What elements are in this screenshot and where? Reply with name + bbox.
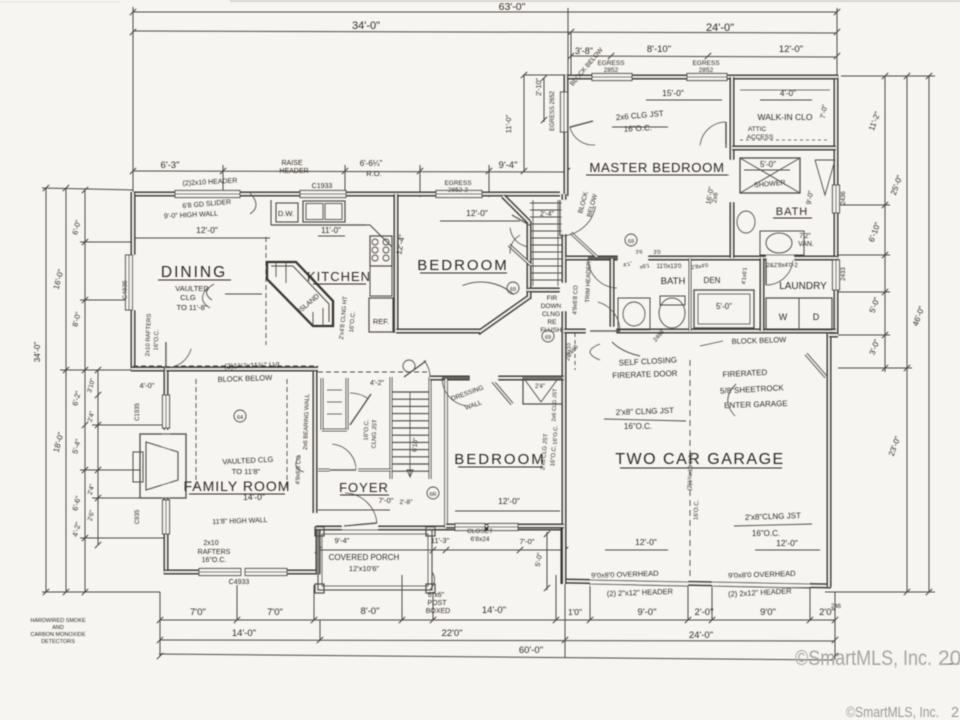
svg-text:ATTIC: ATTIC: [748, 126, 767, 133]
svg-text:MASTER BEDROOM: MASTER BEDROOM: [589, 160, 724, 175]
svg-text:7'0": 7'0": [267, 607, 283, 618]
svg-text:4'9x6'8 CO: 4'9x6'8 CO: [572, 285, 579, 315]
svg-text:©SmartMLS, Inc.: ©SmartMLS, Inc.: [846, 705, 939, 720]
svg-text:69: 69: [510, 287, 516, 293]
svg-text:6'-3": 6'-3": [161, 160, 180, 171]
svg-text:7'0": 7'0": [190, 607, 206, 618]
svg-text:11'0x13'0: 11'0x13'0: [657, 264, 683, 270]
svg-text:11'-0": 11'-0": [504, 114, 513, 133]
svg-text:2&2'8x4'0-2: 2&2'8x4'0-2: [766, 263, 798, 269]
svg-text:4'-2": 4'-2": [370, 380, 384, 387]
svg-text:REF.: REF.: [373, 317, 389, 326]
svg-text:CLNG JST: CLNG JST: [371, 419, 378, 449]
svg-text:5'-0": 5'-0": [760, 160, 776, 169]
svg-text:EGRESS: EGRESS: [444, 180, 472, 187]
svg-text:11'-3": 11'-3": [431, 536, 450, 545]
svg-text:64: 64: [237, 415, 243, 421]
svg-text:24'-0": 24'-0": [706, 22, 734, 34]
svg-text:RAISE: RAISE: [281, 160, 302, 167]
svg-text:12'-0": 12'-0": [779, 44, 803, 55]
svg-text:14'-0": 14'-0": [232, 628, 256, 639]
svg-text:12'-0": 12'-0": [466, 208, 488, 218]
svg-text:2'-10": 2'-10": [536, 78, 543, 96]
svg-text:11'-0": 11'-0": [321, 226, 341, 235]
svg-text:©SmartMLS, Inc.: ©SmartMLS, Inc.: [795, 647, 932, 670]
svg-text:VAN.: VAN.: [798, 241, 814, 248]
svg-text:2433: 2433: [841, 267, 847, 281]
svg-text:2852: 2852: [604, 67, 619, 74]
svg-text:2436: 2436: [841, 191, 847, 205]
svg-text:6"x6": 6"x6": [428, 592, 445, 599]
svg-text:63'-0": 63'-0": [499, 1, 526, 13]
svg-text:2'-0": 2'-0": [695, 607, 714, 618]
svg-text:2'4": 2'4": [535, 384, 545, 390]
svg-text:TWO CAR GARAGE: TWO CAR GARAGE: [615, 451, 784, 468]
svg-text:16"O.C.: 16"O.C.: [154, 329, 161, 351]
svg-text:7'2": 7'2": [799, 233, 811, 240]
svg-text:16"O.C.: 16"O.C.: [364, 419, 371, 441]
svg-text:12'-0": 12'-0": [498, 496, 520, 506]
svg-text:C1933: C1933: [312, 183, 333, 190]
svg-text:6'8x24: 6'8x24: [471, 536, 490, 543]
svg-text:16"O.C.: 16"O.C.: [202, 557, 227, 564]
svg-text:AND: AND: [52, 625, 64, 631]
svg-text:12'x10'6": 12'x10'6": [349, 564, 379, 573]
svg-text:D.W.: D.W.: [278, 209, 294, 218]
svg-text:16"O.C.: 16"O.C.: [624, 123, 653, 133]
svg-text:BEDROOM: BEDROOM: [417, 257, 509, 274]
svg-text:BATH: BATH: [776, 206, 809, 218]
svg-text:14'-0": 14'-0": [243, 492, 265, 502]
svg-text:C4935: C4935: [122, 280, 129, 300]
svg-text:2852: 2852: [699, 67, 714, 74]
svg-text:BOXED: BOXED: [426, 608, 451, 615]
svg-text:DOWN: DOWN: [541, 303, 562, 310]
svg-text:C1935: C1935: [135, 403, 141, 421]
svg-text:22'0": 22'0": [441, 628, 462, 639]
svg-text:DEN: DEN: [704, 276, 721, 285]
svg-text:2852-2: 2852-2: [448, 187, 469, 194]
svg-text:246: 246: [831, 604, 842, 610]
svg-text:3'0: 3'0: [653, 250, 660, 256]
svg-text:CLOSET: CLOSET: [467, 528, 493, 535]
svg-text:6'-6¼": 6'-6¼": [360, 159, 383, 168]
svg-text:4'-0": 4'-0": [780, 89, 796, 98]
svg-text:9'-0": 9'-0": [638, 607, 657, 618]
svg-text:16"O.C.: 16"O.C.: [624, 422, 652, 431]
svg-text:BATH: BATH: [661, 276, 686, 287]
svg-text:DETECTORS: DETECTORS: [41, 639, 75, 645]
svg-text:24'-0": 24'-0": [689, 630, 713, 641]
svg-text:FAMILY ROOM: FAMILY ROOM: [184, 478, 291, 494]
svg-text:34'-0": 34'-0": [352, 20, 380, 32]
svg-text:6'10": 6'10": [411, 437, 419, 453]
svg-text:16"O.C.: 16"O.C.: [752, 529, 780, 538]
svg-text:HEADER: HEADER: [279, 168, 308, 175]
svg-text:69: 69: [628, 239, 634, 245]
svg-text:12'-0": 12'-0": [776, 538, 798, 548]
svg-text:C4933: C4933: [229, 579, 250, 586]
svg-text:FIR: FIR: [547, 295, 558, 302]
svg-text:CARBON MONOXIDE: CARBON MONOXIDE: [30, 632, 85, 638]
svg-text:RAFTERS: RAFTERS: [198, 549, 231, 556]
svg-text:9'-4": 9'-4": [335, 536, 350, 545]
svg-text:20: 20: [938, 647, 960, 670]
svg-text:6R: 6R: [429, 492, 436, 498]
svg-text:TO 11'-8": TO 11'-8": [177, 303, 208, 312]
svg-text:CLNG: CLNG: [542, 311, 560, 318]
svg-text:16'O.C.: 16'O.C.: [694, 499, 701, 520]
svg-text:C935: C935: [135, 509, 141, 524]
svg-text:TO 11'8": TO 11'8": [232, 467, 261, 476]
svg-text:W: W: [779, 312, 788, 322]
svg-text:CLG: CLG: [180, 293, 196, 302]
svg-text:2: 2: [951, 705, 959, 720]
svg-text:KITCHEN: KITCHEN: [307, 269, 371, 284]
svg-text:EGRESS: EGRESS: [692, 60, 720, 67]
svg-text:2x10: 2x10: [203, 540, 218, 547]
svg-text:4'-0": 4'-0": [140, 381, 155, 390]
svg-text:9'0": 9'0": [760, 607, 776, 618]
svg-text:ACCESS: ACCESS: [747, 134, 774, 141]
svg-text:14'-0": 14'-0": [482, 605, 506, 616]
svg-text:POST: POST: [427, 600, 447, 607]
svg-text:DINING: DINING: [161, 264, 227, 281]
svg-text:2'-4": 2'-4": [540, 211, 554, 218]
svg-text:RE: RE: [547, 319, 557, 326]
svg-text:FOYER: FOYER: [339, 480, 389, 495]
svg-text:8'-10": 8'-10": [647, 44, 671, 55]
svg-text:WALK-IN CLO: WALK-IN CLO: [758, 112, 813, 122]
svg-text:8'-0": 8'-0": [361, 606, 380, 617]
svg-text:3'6: 3'6: [635, 250, 642, 256]
svg-text:LAUNDRY: LAUNDRY: [779, 281, 827, 292]
svg-text:EGRESS: EGRESS: [597, 60, 625, 67]
svg-text:3'-8": 3'-8": [575, 46, 593, 56]
svg-text:60'-0": 60'-0": [519, 645, 543, 656]
svg-text:12'-0": 12'-0": [635, 537, 657, 547]
svg-text:COVERED PORCH: COVERED PORCH: [329, 553, 400, 562]
svg-text:1'0": 1'0": [568, 607, 582, 617]
svg-text:7'-0": 7'-0": [379, 496, 394, 505]
svg-text:HARDWIRED SMOKE: HARDWIRED SMOKE: [30, 618, 86, 624]
svg-text:7'-0": 7'-0": [520, 537, 535, 546]
svg-text:2'-8": 2'-8": [400, 499, 414, 506]
svg-text:2x6 CLG JST: 2x6 CLG JST: [551, 388, 558, 422]
svg-text:34'-0": 34'-0": [33, 342, 42, 363]
svg-text:15'-0": 15'-0": [662, 88, 684, 98]
svg-text:69: 69: [545, 335, 551, 341]
svg-text:EGRESS 2652: EGRESS 2652: [550, 90, 556, 131]
svg-text:D: D: [813, 312, 820, 322]
svg-text:5'-0": 5'-0": [716, 302, 732, 311]
svg-text:BEDROOM: BEDROOM: [454, 451, 546, 468]
svg-text:9'-4": 9'-4": [499, 160, 518, 171]
svg-text:12'-0": 12'-0": [196, 225, 218, 235]
svg-text:16"O.C.: 16"O.C.: [553, 425, 560, 445]
svg-text:R.O.: R.O.: [366, 169, 381, 178]
